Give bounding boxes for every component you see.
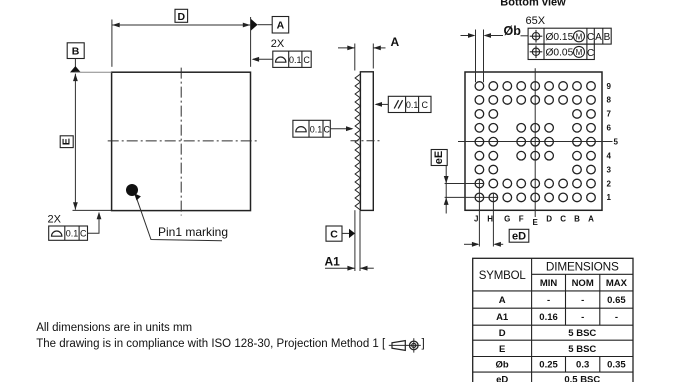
svg-text:M: M — [576, 32, 583, 41]
ball column letters J..A — [474, 214, 594, 227]
dimensions table — [473, 258, 633, 384]
svg-text:2: 2 — [607, 179, 612, 188]
top view vertical centerline — [180, 68, 182, 216]
svg-text:2X: 2X — [271, 38, 285, 50]
datum C triangle and leader — [342, 229, 355, 238]
side view horizontal centerline — [351, 140, 381, 142]
svg-text:1: 1 — [607, 193, 612, 202]
leader arrow from profile frame to D extension line — [252, 57, 273, 62]
pin1 marking dot — [126, 184, 138, 196]
svg-text:0.35: 0.35 — [607, 360, 626, 371]
svg-text:0.1: 0.1 — [310, 124, 323, 134]
svg-text:All dimensions are in units mm: All dimensions are in units mm — [36, 322, 192, 334]
svg-text:E: E — [61, 138, 73, 145]
svg-text:0.1: 0.1 — [289, 55, 302, 65]
svg-text:0.1: 0.1 — [66, 229, 79, 239]
svg-text:0.1: 0.1 — [406, 100, 419, 110]
eE dimension line with arrows — [444, 166, 449, 214]
svg-text:Bottom view: Bottom view — [500, 0, 566, 8]
leader from bottom-left profile frame up to bottom edge — [88, 212, 102, 234]
svg-text:A1: A1 — [325, 255, 341, 269]
svg-text:A1: A1 — [496, 312, 509, 323]
svg-text:H: H — [487, 214, 493, 223]
svg-text:Ø0.15: Ø0.15 — [546, 32, 574, 43]
projection method symbol: frustum — [389, 341, 421, 351]
feature control frame: profile 0.1 C (bottom left) — [49, 226, 88, 240]
bottom view package outline — [465, 72, 602, 210]
svg-text:7: 7 — [607, 110, 612, 119]
dimension D boxed label — [175, 9, 188, 23]
svg-text:C: C — [323, 124, 330, 134]
svg-text:A: A — [595, 32, 602, 43]
datum A triangle and leader — [251, 19, 272, 31]
svg-text:Ø0.05: Ø0.05 — [546, 47, 574, 58]
svg-text:C: C — [421, 100, 428, 110]
dimension A extension lines — [354, 44, 356, 71]
svg-text:E: E — [499, 344, 505, 355]
ball row numbers 9..1 — [607, 82, 619, 202]
leader arrow from left profile frame to ball plane — [330, 126, 353, 131]
svg-text:MIN: MIN — [540, 278, 558, 289]
top edge extension line for datum B — [75, 71, 112, 73]
svg-text:C: C — [303, 55, 310, 65]
svg-text:F: F — [519, 214, 524, 223]
svg-text:D: D — [499, 328, 506, 339]
svg-text:D: D — [178, 11, 186, 23]
svg-text:M: M — [576, 48, 583, 57]
body bottom face extension line — [359, 210, 361, 271]
datum B boxed label — [67, 43, 84, 59]
svg-text:0.65: 0.65 — [607, 295, 626, 306]
svg-text:Pin1 marking: Pin1 marking — [158, 225, 228, 239]
svg-text:NOM: NOM — [572, 278, 594, 289]
seating plane line (datum C) — [354, 210, 356, 271]
svg-text:0.5 BSC: 0.5 BSC — [564, 375, 600, 383]
svg-text:eD: eD — [496, 375, 508, 383]
svg-text:Øb: Øb — [496, 360, 509, 371]
svg-text:-: - — [547, 295, 550, 306]
eD dimension line with arrows — [464, 242, 503, 247]
side view solder ball zigzag profile — [355, 74, 360, 210]
svg-text:5 BSC: 5 BSC — [568, 328, 596, 339]
svg-text:eE: eE — [433, 151, 445, 164]
svg-text:Øb: Øb — [504, 24, 522, 38]
svg-text:A: A — [277, 20, 285, 32]
pin1 marking leader and label — [134, 193, 228, 241]
dimension D extension line left — [111, 20, 113, 67]
datum B triangle and leader — [70, 59, 81, 73]
dimension E boxed label (rotated) — [60, 136, 73, 148]
svg-text:B: B — [574, 214, 580, 223]
table header text — [479, 260, 628, 290]
diameter b arrows and leader — [461, 33, 529, 38]
leader arrow from parallelism frame to side body — [375, 102, 389, 107]
svg-text:B: B — [72, 45, 80, 57]
datum A boxed label — [272, 17, 289, 34]
svg-text:C: C — [587, 32, 594, 43]
dimension E line with arrows — [73, 74, 78, 210]
svg-text:C: C — [80, 229, 87, 239]
svg-text:MAX: MAX — [606, 278, 628, 289]
svg-text:8: 8 — [607, 96, 612, 105]
projection method symbol: circles — [410, 338, 419, 352]
svg-text:A: A — [499, 295, 506, 306]
svg-text:-: - — [581, 312, 584, 323]
side view package body outline — [360, 72, 373, 211]
svg-text:J: J — [474, 214, 478, 223]
svg-text:A: A — [391, 35, 400, 49]
svg-text:DIMENSIONS: DIMENSIONS — [546, 260, 619, 274]
feature control frame: profile 0.1 C (top right) — [273, 51, 311, 67]
eD boxed label — [509, 229, 529, 242]
bottom view vertical centerline — [534, 68, 536, 217]
svg-text:C: C — [560, 214, 566, 223]
svg-text:C: C — [330, 228, 338, 240]
feature control frame: parallelism 0.1 C — [388, 96, 431, 112]
svg-text:]: ] — [422, 338, 425, 350]
top view package body outline — [112, 72, 251, 210]
svg-text:E: E — [533, 218, 539, 227]
eE dimension extension lines — [445, 183, 484, 185]
svg-text:The drawing is in compliance w: The drawing is in compliance with ISO 12… — [36, 338, 386, 350]
bottom view horizontal centerline — [458, 141, 613, 143]
svg-text:2X: 2X — [48, 213, 62, 225]
svg-text:4: 4 — [607, 152, 612, 161]
table data rows — [496, 295, 627, 386]
svg-text:0.16: 0.16 — [539, 312, 558, 323]
svg-text:-: - — [581, 295, 584, 306]
svg-text:9: 9 — [607, 82, 612, 91]
dimension D line with arrows — [112, 23, 250, 28]
svg-text:eD: eD — [512, 231, 526, 243]
svg-text:-: - — [615, 312, 618, 323]
svg-text:3: 3 — [607, 165, 612, 174]
datum C boxed label — [326, 226, 342, 241]
eD dimension extension lines — [478, 179, 480, 246]
svg-text:C: C — [587, 48, 594, 59]
dimension A line with inward arrows — [338, 46, 386, 51]
bottom edge extension line — [73, 209, 112, 211]
svg-text:D: D — [546, 214, 552, 223]
svg-text:G: G — [504, 214, 510, 223]
svg-text:A: A — [588, 214, 594, 223]
feature control frame: profile 0.1 C (side view left) — [293, 120, 331, 137]
diameter b callout: tangent lines — [475, 30, 477, 83]
svg-text:5 BSC: 5 BSC — [568, 344, 596, 355]
svg-text:5: 5 — [614, 138, 619, 147]
svg-text:0.3: 0.3 — [576, 360, 589, 371]
position tolerance frame row 1 — [528, 28, 611, 44]
top view horizontal centerline — [108, 140, 260, 142]
svg-text:6: 6 — [607, 124, 612, 133]
dimension A1 line with inward arrows — [325, 266, 374, 271]
dimension D extension line right — [250, 17, 252, 67]
svg-text:65X: 65X — [526, 15, 546, 27]
position tolerance frame row 2 — [528, 44, 594, 59]
svg-text:0.25: 0.25 — [539, 360, 558, 371]
eE boxed label (rotated) — [431, 150, 447, 166]
svg-text:B: B — [604, 32, 611, 43]
row 5 centerline stub — [602, 141, 613, 143]
solder ball array 65x — [475, 82, 595, 202]
svg-text:SYMBOL: SYMBOL — [479, 270, 527, 282]
